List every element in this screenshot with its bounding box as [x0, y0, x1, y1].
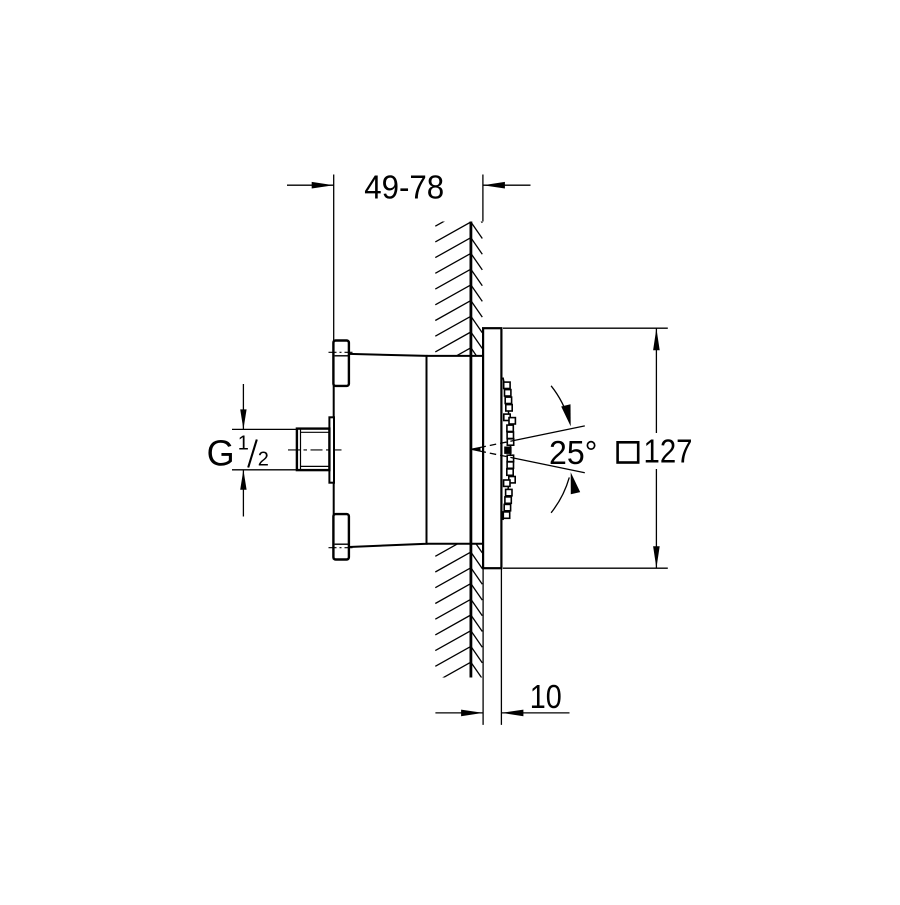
svg-text:10: 10 — [530, 678, 562, 715]
svg-text:25°: 25° — [549, 434, 598, 471]
svg-text:127: 127 — [644, 433, 693, 470]
svg-text:1: 1 — [238, 433, 249, 455]
svg-text:2: 2 — [258, 449, 269, 471]
svg-text:49-78: 49-78 — [364, 168, 444, 205]
svg-text:G: G — [207, 433, 235, 474]
